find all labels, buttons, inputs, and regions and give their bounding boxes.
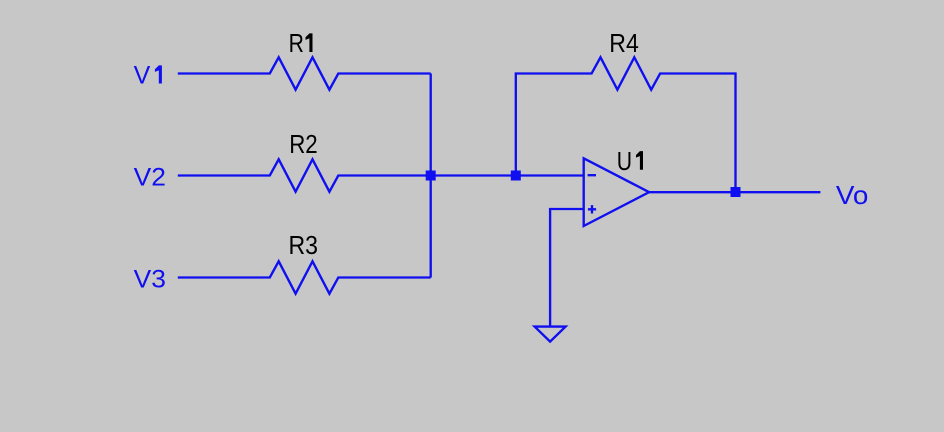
svg-text:V3: V3 (134, 265, 166, 293)
svg-text:U: U (617, 146, 632, 176)
svg-text:V2: V2 (134, 164, 166, 192)
svg-text:V: V (134, 62, 151, 90)
svg-text:R4: R4 (609, 28, 639, 58)
svg-text:R2: R2 (289, 129, 318, 159)
svg-text:R3: R3 (289, 230, 319, 260)
svg-text:R: R (289, 28, 304, 58)
svg-text:Vo: Vo (836, 180, 869, 210)
